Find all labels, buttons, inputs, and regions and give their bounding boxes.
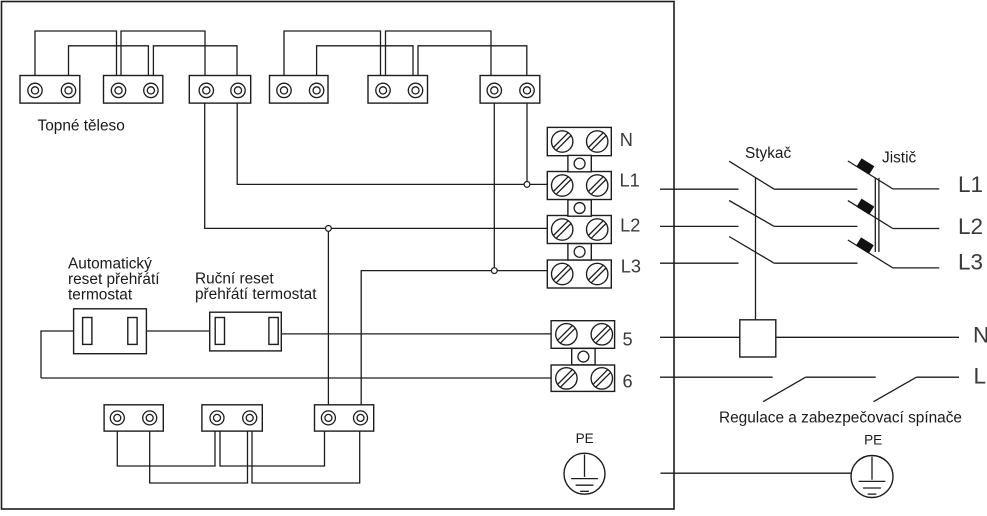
node on L2 line [326,226,332,232]
wire: bottom block1 pin2 to block2 pin2 [150,418,248,483]
breaker thermal element L3 (black) [856,237,874,253]
heater element block 3 [189,76,250,104]
bottom heater block 3 [315,405,374,431]
svg-text:N: N [973,323,987,348]
svg-text:L1: L1 [958,172,983,197]
wire: heater block5 pin1 to block6 pin1 (top level) [386,31,492,90]
bottom heater block 2 [202,405,262,431]
wire: contactor L2 output [774,225,857,227]
wire: L3 terminal line to bottom block3 pin2 [361,271,547,418]
PE earth symbol (inside) [564,453,605,494]
thermostat T1 left contact [83,318,92,345]
breaker output wire L1 [893,188,940,190]
PE earth symbol (right) [851,456,893,498]
wire: L3 stub through enclosure border [660,262,739,264]
contactor linkage to coil [755,178,757,320]
breaker output wire L3 [893,267,940,269]
breaker blade L2 [848,201,893,229]
terminal block L2 [547,216,611,244]
wire: block6 pin1 down to node on L3 line [493,90,495,271]
wire: bottom block2 pin1 to block3 pin1 [220,418,325,466]
contactor coil box [740,320,776,357]
heater element block 1 [20,76,80,104]
svg-text:Topné těleso: Topné těleso [38,118,125,135]
svg-text:Stykač: Stykač [745,145,791,162]
wire: terminal 6 line to thermostat T1 (left lead) [41,331,87,378]
heater element block 5 [368,76,428,104]
svg-text:L3: L3 [958,249,983,274]
svg-text:6: 6 [623,372,633,392]
thermostat T2 left contact [215,318,224,345]
thermostat T2 right contact [269,318,278,345]
breaker thermal element L1 (black) [856,158,874,174]
wire: block3 pin1 down to L2 terminal [205,90,548,228]
terminal block 6 [551,365,615,391]
breaker blade L3 [848,240,893,268]
contactor blade L2 [729,201,774,227]
thermostat T1 right contact [128,318,137,345]
wire: node on L2 line down to bottom block3 pin1 [327,228,329,418]
wire: bottom block1 pin1 to block2 pin1 [117,418,215,466]
wire: L line middle segment [806,376,876,378]
wire: thermostat T1 to thermostat T2 [132,330,219,332]
wire: heater block5 pin2 to block6 pin2 (second level) [418,46,527,90]
svg-text:Jistič: Jistič [882,150,917,167]
contactor blade L1 [729,161,774,189]
svg-text:L3: L3 [621,257,641,277]
svg-text:L: L [974,363,987,388]
svg-text:L2: L2 [958,214,983,239]
wire: heater block1 pin2 to block2 pin2 (second level) [69,46,149,90]
outer enclosure box [2,2,675,510]
wire: PE line through border [661,472,852,474]
breaker thermal element L2 (black) [856,199,874,215]
wire: heater block1 pin1 to block2 pin1 (top level) [35,31,117,90]
heater element block 2 [104,76,163,104]
wire: thermostat T2 to terminal 5 [274,333,557,335]
breaker blade L1 [848,161,893,189]
terminal strip connector [572,348,595,364]
breaker output wire L2 [893,228,940,230]
node on L3 line [491,268,497,274]
wire: heater block4 pin1 to block5 pin1 (top level) [284,31,381,90]
wire: block3 pin2 down to L1 terminal [237,90,547,184]
thermostat T2 (rucni reset) body [210,312,282,351]
wire: contactor L3 output [774,262,857,264]
wire: block6 pin2 down to node on L1 line [526,90,528,184]
terminal strip connector [568,200,591,216]
svg-text:Regulace a zabezpečovací spína: Regulace a zabezpečovací spínače [719,410,962,427]
thermostat T1 (automaticky reset) body [74,309,147,354]
switch blade (regulation) 2 [874,377,917,402]
wire: L line right segment [916,376,959,378]
svg-text:L1: L1 [620,171,640,191]
svg-text:L2: L2 [620,216,640,236]
svg-text:PE: PE [576,431,594,446]
wire: L1 stub through enclosure border [660,188,739,190]
wire: N line right segment [776,336,959,338]
switch blade (regulation) 1 [763,377,806,402]
wire: bottom block2 pin2 to block3 pin2 [252,418,360,483]
terminal block N [547,127,611,155]
terminal block 5 [551,321,615,349]
wire: L2 stub through enclosure border [660,225,739,227]
wire: terminal 6 line [41,377,556,379]
terminal strip connector [568,244,591,260]
terminal block L1 [547,172,611,200]
wire: heater block2 pin2 to block3 pin2 (second level) [153,46,237,90]
svg-text:5: 5 [623,329,633,349]
heater element block 6 [480,76,540,104]
wire: N line left segment [660,336,740,338]
svg-text:N: N [620,130,633,150]
breaker linkage double line [874,178,876,253]
heater element block 4 [270,76,329,104]
wire: heater block4 pin2 to block5 pin2 (second level) [317,46,413,90]
bottom heater block 1 [104,405,163,431]
terminal block L3 [547,260,611,288]
svg-text:PE: PE [864,432,882,447]
wire: L line left segment [660,376,773,378]
wire: contactor L1 output [774,188,857,190]
contactor blade L3 [729,237,774,264]
node on L1 line [524,182,530,188]
wire: heater block2 pin1 to block3 pin1 (top level) [121,31,205,90]
terminal strip connector [568,155,591,171]
